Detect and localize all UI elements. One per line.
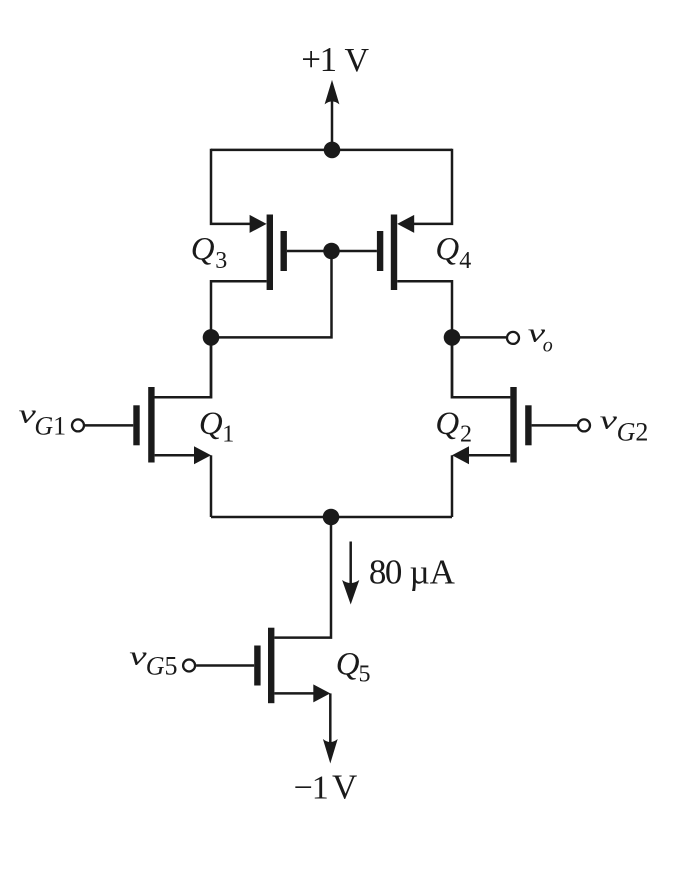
wire node B to output terminal [452, 336, 506, 339]
svg-text:µA: µA [410, 553, 456, 592]
label vG1 [19, 400, 67, 441]
wire left rail drop to Q3 source lead [211, 149, 254, 224]
wire Q1 source lead [155, 454, 196, 457]
wire vG5 terminal to Q5 gate [196, 664, 254, 667]
svg-text:4: 4 [459, 248, 471, 274]
wire Q5 source lead [274, 692, 315, 695]
label Q1 [199, 406, 234, 447]
transistor Q3 (PMOS) [250, 215, 287, 291]
svg-text:o: o [543, 335, 553, 357]
svg-text:Q: Q [199, 406, 223, 442]
label vG2 [600, 406, 649, 447]
wire diode connection node G down to left drain node [211, 251, 332, 337]
node dot at +1V rail [324, 142, 341, 159]
svg-text:+1: +1 [301, 40, 335, 79]
svg-text:V: V [332, 768, 357, 807]
transistor Q5 (NMOS) [254, 628, 330, 704]
wire vG1 terminal to Q1 gate [85, 424, 133, 427]
wire top rail from Q3 source to Q4 source [211, 149, 452, 152]
wire Q5 source to -1V lead [329, 693, 332, 742]
svg-text:Q: Q [191, 231, 215, 267]
wire Q3 gate to node G [287, 250, 332, 253]
wire Q1 source down to tail rail [210, 455, 213, 517]
transistor Q4 (PMOS) [377, 215, 414, 291]
terminal vG1 circle [72, 419, 84, 431]
label vG5 [129, 642, 177, 681]
svg-text:G2: G2 [617, 417, 649, 446]
svg-text:v: v [600, 406, 618, 435]
wire node A down to Q1 drain [155, 337, 211, 397]
terminal vG5 circle [183, 660, 195, 672]
svg-text:80: 80 [369, 553, 402, 592]
wire Q3 drain down to node A [211, 281, 267, 337]
node G dot (Q3/Q4 gates) [323, 243, 340, 260]
svg-text:Q: Q [435, 231, 459, 267]
svg-text:V: V [345, 42, 370, 79]
tail node dot (Q1/Q2 sources) [323, 509, 340, 526]
label Q5 [336, 647, 371, 688]
label -1 V [294, 768, 358, 807]
80uA current arrowhead [342, 580, 359, 605]
node B dot (Q4 drain / Q2 drain / output) [444, 329, 461, 346]
wire tail node down to Q5 drain [274, 517, 331, 638]
svg-text:5: 5 [359, 662, 371, 688]
svg-text:1: 1 [222, 421, 234, 447]
wire Q4 gate to node G [332, 250, 377, 253]
label 80 uA [369, 553, 456, 592]
label vo [528, 319, 553, 357]
transistor Q2 (NMOS) [452, 387, 532, 464]
wire Q1 drain lead [155, 340, 211, 397]
svg-text:v: v [129, 642, 147, 671]
svg-text:Q: Q [336, 647, 360, 683]
wire +1V supply lead [331, 96, 334, 150]
-1 V supply arrowhead [323, 739, 338, 764]
label Q4 [435, 231, 471, 274]
node A dot (Q3 drain / Q1 drain) [203, 329, 220, 346]
wire 80uA current arrow shaft [349, 542, 352, 588]
wire Q2 source lead [467, 454, 510, 457]
wire tail rail [211, 516, 452, 519]
svg-text:2: 2 [460, 421, 472, 447]
wire Q4 drain down to node B [397, 281, 452, 337]
svg-text:G1: G1 [34, 412, 66, 441]
terminal vo circle [507, 332, 519, 344]
svg-text:Q: Q [435, 406, 459, 442]
label Q2 [435, 406, 472, 447]
wire right rail drop to Q4 source lead [410, 149, 452, 224]
terminal vG2 circle [578, 419, 590, 431]
wire Q2 source down to tail rail [451, 455, 454, 517]
+1 V supply arrowhead [325, 80, 340, 105]
label +1 V [301, 40, 369, 79]
transistor Q1 (NMOS) [133, 387, 211, 464]
wire Q2 drain lead [452, 340, 510, 397]
wire node B down to Q2 drain [452, 337, 510, 397]
label Q3 [191, 231, 227, 274]
svg-text:G5: G5 [146, 652, 178, 681]
wire vG2 terminal to Q2 gate [532, 424, 577, 427]
svg-text:3: 3 [215, 248, 227, 274]
svg-text:−1: −1 [294, 770, 328, 807]
